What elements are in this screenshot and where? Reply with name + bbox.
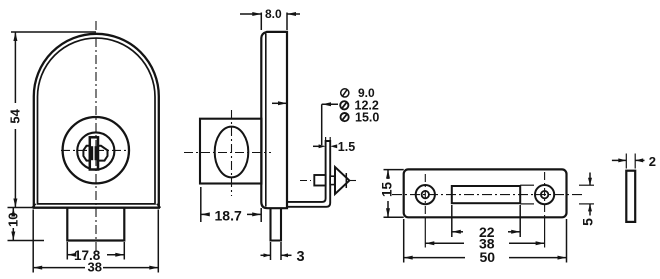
svg-text:50: 50: [480, 249, 496, 265]
svg-text:54: 54: [8, 108, 23, 123]
svg-text:15: 15: [380, 182, 395, 198]
svg-text:15.0: 15.0: [355, 110, 379, 124]
svg-text:3: 3: [297, 249, 305, 265]
svg-text:2: 2: [649, 154, 656, 169]
svg-text:1.5: 1.5: [338, 140, 355, 154]
svg-text:5: 5: [580, 218, 596, 226]
svg-text:8.0: 8.0: [265, 7, 282, 21]
svg-text:38: 38: [88, 260, 102, 275]
svg-text:10: 10: [5, 213, 20, 227]
svg-text:18.7: 18.7: [215, 208, 242, 224]
